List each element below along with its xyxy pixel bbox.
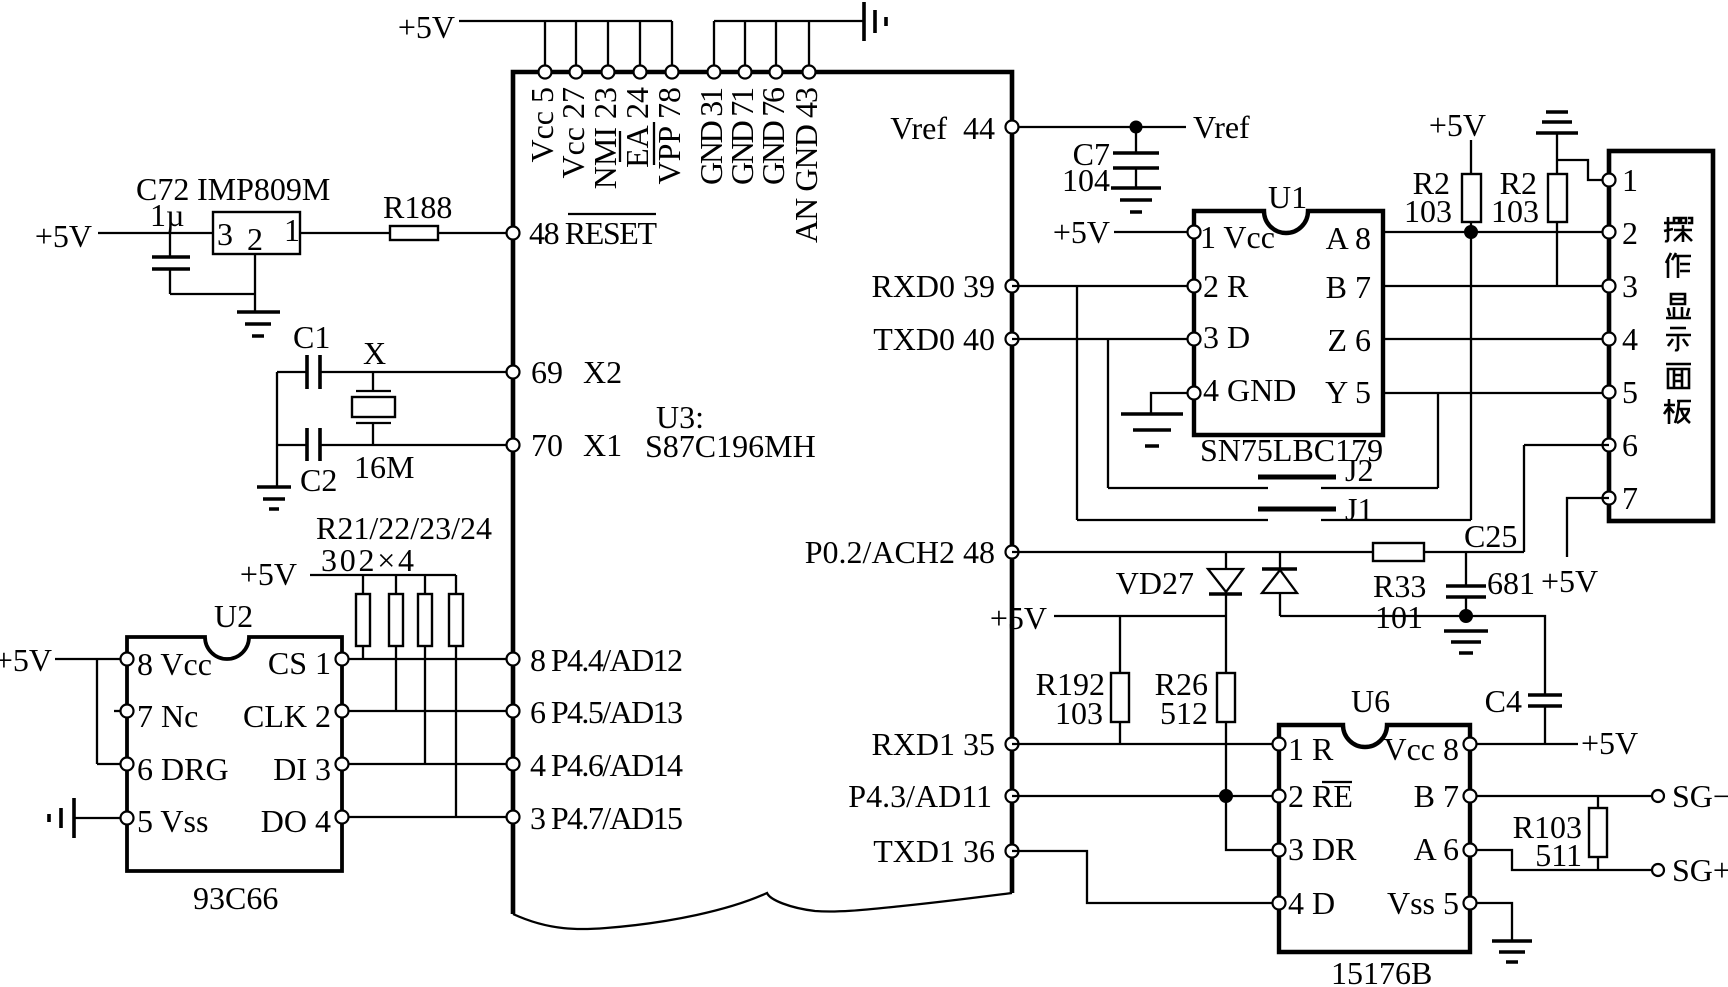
node C25 ground junction <box>1459 609 1473 623</box>
svg-text:C1: C1 <box>293 319 330 355</box>
pin AN GND 43 <box>788 66 824 244</box>
svg-text:+5V: +5V <box>35 218 92 254</box>
svg-text:GND 76: GND 76 <box>755 87 791 185</box>
pin 70 X1 <box>507 427 623 463</box>
wire branch to J2 left <box>1107 339 1109 488</box>
svg-text:TXD0 40: TXD0 40 <box>873 321 995 357</box>
pin GND 76 <box>755 66 791 186</box>
svg-text:4: 4 <box>1622 321 1638 357</box>
wire U1.B to panel pin3 <box>1383 285 1609 287</box>
pin U2.7 <box>121 705 134 718</box>
svg-text:C25: C25 <box>1464 518 1517 554</box>
node Vref junction <box>1130 121 1143 134</box>
pin U6.3 <box>1273 844 1286 857</box>
svg-text:R21/22/23/24: R21/22/23/24 <box>316 510 492 546</box>
EEPROM U2 93C66 body <box>127 598 342 916</box>
pin Vref circle <box>1006 121 1019 134</box>
pin U1.4 <box>1188 387 1201 400</box>
svg-text:3 P4.7/AD15: 3 P4.7/AD15 <box>530 800 683 836</box>
ground U2 Vss <box>49 798 74 838</box>
pin U6.1 <box>1273 738 1286 751</box>
wire U2 pin7 stub <box>114 710 121 712</box>
svg-text:J1: J1 <box>1345 491 1373 527</box>
pin U1.1 <box>1188 226 1201 239</box>
pin U6.8 <box>1464 738 1477 751</box>
wire U1.A to panel pin2 <box>1383 231 1609 233</box>
svg-text:AN GND 43: AN GND 43 <box>788 87 824 243</box>
svg-text:69: 69 <box>531 354 563 390</box>
svg-text:+5V: +5V <box>1429 107 1486 143</box>
panel pin6 <box>1603 439 1616 452</box>
pin U2.6 <box>121 758 134 771</box>
svg-text:A 8: A 8 <box>1326 220 1371 256</box>
svg-text:P4.3/AD11: P4.3/AD11 <box>848 778 992 814</box>
wire U6.B to SG- <box>1470 795 1652 797</box>
pin 6 P4.5/AD13 <box>507 694 684 730</box>
svg-text:681: 681 <box>1487 565 1535 601</box>
svg-text:1µ: 1µ <box>150 197 184 233</box>
wire CS to P4.4 <box>342 658 513 660</box>
svg-text:TXD1 36: TXD1 36 <box>873 833 995 869</box>
svg-text:8 P4.4/AD12: 8 P4.4/AD12 <box>530 642 683 678</box>
svg-text:VPP 78: VPP 78 <box>651 87 687 185</box>
svg-text:103: 103 <box>1491 193 1539 229</box>
pin U2.5 <box>121 812 134 825</box>
ground IMP809M <box>237 312 280 336</box>
pin 8 P4.4/AD12 <box>507 642 684 678</box>
MCU U3 S87C196MH body <box>513 72 1012 929</box>
wire U6 Vcc to +5V <box>1470 743 1578 745</box>
pin TXD1 36 <box>873 833 1018 869</box>
wire TXD1 to U6.4 <box>1012 851 1279 903</box>
svg-text:R188: R188 <box>383 189 452 225</box>
diode VD27a to +5V <box>1208 552 1243 616</box>
pin P4.3/AD11 <box>848 778 1018 814</box>
pin P0.2/ACH2 48 <box>805 534 1019 570</box>
svg-text:U1: U1 <box>1268 179 1307 215</box>
svg-text:6 P4.5/AD13: 6 P4.5/AD13 <box>530 694 683 730</box>
wire RXD0 to U1.R <box>1012 285 1194 287</box>
resistor R33 101 <box>1373 543 1426 635</box>
svg-text:1: 1 <box>284 212 300 248</box>
svg-text:C2: C2 <box>300 462 337 498</box>
svg-text:70: 70 <box>531 427 563 463</box>
pin U1.3 <box>1188 333 1201 346</box>
svg-text:DI 3: DI 3 <box>273 751 331 787</box>
wire CLK to P4.5 <box>342 710 513 712</box>
wire U1.4 to ground <box>1151 393 1194 414</box>
ground top-right <box>864 2 886 41</box>
wire R188 to RESET <box>438 232 513 234</box>
svg-text:48 RESET: 48 RESET <box>529 215 657 251</box>
pin 3 P4.7/AD15 <box>507 800 684 836</box>
svg-text:7 Nc: 7 Nc <box>137 698 198 734</box>
panel label char 操 <box>1664 217 1692 242</box>
wire C4 top <box>1466 616 1545 694</box>
resistor R103 511 <box>1513 796 1607 873</box>
wire +5V to IMP809M <box>98 232 213 234</box>
svg-text:4 GND: 4 GND <box>1203 372 1296 408</box>
svg-text:7: 7 <box>1622 480 1638 516</box>
wire DO to P4.7 <box>342 816 513 818</box>
svg-text:S87C196MH: S87C196MH <box>645 428 816 464</box>
svg-text:RXD0 39: RXD0 39 <box>871 268 995 304</box>
svg-text:93C66: 93C66 <box>193 880 278 916</box>
wire +5V rail top <box>459 21 672 72</box>
pin 48 RESET <box>507 214 658 251</box>
panel label char 显 <box>1666 294 1691 318</box>
wire U2 Vss to ground <box>75 817 121 819</box>
resistor R2 103 first <box>1404 140 1481 232</box>
wire +5V to U2 Vcc and DRG <box>55 659 127 764</box>
terminal SG+ <box>1652 852 1728 888</box>
pin U2 DI <box>336 758 349 771</box>
pin GND 31 <box>693 66 729 186</box>
svg-text:U2: U2 <box>214 598 253 634</box>
svg-text:Y 5: Y 5 <box>1325 374 1371 410</box>
svg-text:EA 24: EA 24 <box>619 87 655 168</box>
svg-text:J2: J2 <box>1345 452 1373 488</box>
svg-text:+5V: +5V <box>1581 725 1638 761</box>
svg-text:CS 1: CS 1 <box>268 645 331 681</box>
svg-text:1 R: 1 R <box>1288 731 1334 767</box>
wire U1.Z to panel pin4 <box>1383 338 1609 340</box>
pin U2 CLK <box>336 705 349 718</box>
wire R26 down to DR <box>1226 722 1279 850</box>
diode VD27b to GND <box>1262 552 1297 616</box>
pin U2.8 <box>121 653 134 666</box>
svg-text:511: 511 <box>1535 837 1582 873</box>
wire panel pin1 hook <box>1557 160 1609 180</box>
svg-text:RXD1 35: RXD1 35 <box>871 726 995 762</box>
terminal SG- <box>1652 778 1728 814</box>
svg-text:+5V: +5V <box>1053 214 1110 250</box>
resistor R192 103 <box>1036 616 1129 744</box>
pin GND 71 <box>724 66 760 186</box>
crystal X 16M <box>352 335 414 485</box>
wire TXD0 to U1.D <box>1012 338 1194 340</box>
svg-text:3 D: 3 D <box>1203 319 1250 355</box>
connector panel 操作显示面板 <box>1609 151 1713 521</box>
svg-text:CLK 2: CLK 2 <box>243 698 331 734</box>
svg-text:16M: 16M <box>354 449 414 485</box>
driver U6 15176B body <box>1279 683 1470 987</box>
ground U6 Vss <box>1492 941 1532 962</box>
panel pin1 <box>1603 174 1616 187</box>
svg-text:Vref 44: Vref 44 <box>890 110 995 146</box>
capacitor C72 1u <box>136 171 255 294</box>
svg-text:SG+: SG+ <box>1672 852 1728 888</box>
wire RXD1 to U6.1 <box>1012 743 1279 745</box>
supervisor U? IMP809M <box>197 171 330 257</box>
jumper J1 <box>1077 491 1471 527</box>
svg-text:B 7: B 7 <box>1414 778 1459 814</box>
pin U1.2 <box>1188 280 1201 293</box>
svg-text:SG−: SG− <box>1672 778 1728 814</box>
svg-text:2 RE: 2 RE <box>1288 778 1353 814</box>
panel pin5 <box>1603 386 1616 399</box>
svg-text:X1: X1 <box>583 427 622 463</box>
svg-text:B 7: B 7 <box>1326 269 1371 305</box>
svg-text:P0.2/ACH2 48: P0.2/ACH2 48 <box>805 534 995 570</box>
svg-text:U6: U6 <box>1351 683 1390 719</box>
wire IMP pin2 to ground <box>254 254 256 312</box>
svg-text:1: 1 <box>1622 162 1638 198</box>
svg-text:103: 103 <box>1404 193 1452 229</box>
svg-text:5 Vss: 5 Vss <box>137 803 208 839</box>
wire branch to J1 left <box>1076 286 1078 520</box>
svg-text:C4: C4 <box>1485 683 1522 719</box>
svg-text:2: 2 <box>1622 215 1638 251</box>
resistor network R21/22/23/24 302x4 <box>240 510 492 817</box>
resistor R188 <box>383 189 452 240</box>
wire R33 to pin6 vertical <box>1424 445 1609 552</box>
wire panel pin7 to +5V <box>1567 498 1609 557</box>
svg-text:X: X <box>363 335 386 371</box>
svg-text:A 6: A 6 <box>1414 831 1459 867</box>
wire U1.Y to panel pin5 <box>1383 392 1609 394</box>
svg-text:15176B: 15176B <box>1331 955 1432 987</box>
wire +5V to U1.1 <box>1114 231 1194 233</box>
pin Vcc 27 <box>555 66 591 179</box>
svg-text:103: 103 <box>1055 695 1103 731</box>
svg-text:DO 4: DO 4 <box>261 803 331 839</box>
svg-text:2 R: 2 R <box>1203 268 1249 304</box>
crystal circuit rail <box>276 372 278 487</box>
svg-text:5: 5 <box>1622 374 1638 410</box>
svg-text:4 P4.6/AD14: 4 P4.6/AD14 <box>530 747 683 783</box>
panel pin3 <box>1603 280 1616 293</box>
pin U6.2 <box>1273 790 1286 803</box>
svg-text:Z 6: Z 6 <box>1327 322 1371 358</box>
panel pin7 <box>1603 492 1616 505</box>
pin U6.6 <box>1464 844 1477 857</box>
capacitor C4 <box>1485 683 1562 744</box>
panel pin4 <box>1603 333 1616 346</box>
svg-text:2: 2 <box>247 221 263 257</box>
svg-text:Vcc 8: Vcc 8 <box>1383 731 1459 767</box>
pin Vref 44 <box>890 110 995 146</box>
pin Vcc 5 <box>524 66 560 163</box>
ground C7 <box>1111 188 1161 212</box>
wire +5V rail mid <box>1054 615 1226 617</box>
ground inverted above R2 second <box>1536 112 1578 133</box>
pin TXD0 40 <box>873 321 1018 357</box>
wire IMP pin1 to R188 <box>300 232 390 234</box>
svg-text:3: 3 <box>217 216 233 252</box>
svg-text:+5V: +5V <box>1541 563 1598 599</box>
svg-text:X2: X2 <box>583 354 622 390</box>
capacitor C7 104 <box>1062 127 1159 198</box>
panel label char 面 <box>1666 364 1691 388</box>
panel label char 示 <box>1666 328 1691 350</box>
wire U6 Vss to ground <box>1470 903 1512 940</box>
svg-text:Vcc 27: Vcc 27 <box>555 87 591 179</box>
svg-text:104: 104 <box>1062 162 1110 198</box>
svg-text:VD27: VD27 <box>1116 565 1194 601</box>
svg-text:6: 6 <box>1622 427 1638 463</box>
svg-text:6 DRG: 6 DRG <box>137 751 229 787</box>
jumper J2 <box>1108 452 1438 488</box>
wire Vref out <box>1012 126 1186 128</box>
svg-text:4 D: 4 D <box>1288 885 1335 921</box>
wire GND rail top <box>714 21 864 72</box>
node A8 junction <box>1464 225 1478 239</box>
ground crystal <box>257 487 291 509</box>
resistor R2 103 second <box>1491 133 1567 286</box>
wire Y5 branch to J2 <box>1437 393 1439 488</box>
svg-text:302×4: 302×4 <box>321 542 414 578</box>
pin RXD1 35 <box>871 726 1018 762</box>
svg-text:+5V: +5V <box>0 642 52 678</box>
wire P4.3 to U6.2 <box>1012 795 1279 797</box>
wire DI to P4.6 <box>342 763 513 765</box>
pin U6.7 <box>1464 790 1477 803</box>
wire J1 right vertical <box>1470 232 1472 520</box>
pin RXD0 39 <box>871 268 1018 304</box>
svg-text:+5V: +5V <box>398 9 455 45</box>
wire U6.A to SG+ <box>1470 850 1652 870</box>
ground U1 <box>1121 414 1183 446</box>
svg-text:3: 3 <box>1622 268 1638 304</box>
pin U2 DO <box>336 811 349 824</box>
svg-text:Vref: Vref <box>1193 109 1250 145</box>
svg-text:IMP809M: IMP809M <box>197 171 330 207</box>
panel pin2 <box>1603 226 1616 239</box>
capacitor C1 <box>277 319 513 389</box>
svg-text:1 Vcc: 1 Vcc <box>1200 219 1275 255</box>
svg-text:512: 512 <box>1160 695 1208 731</box>
svg-text:NMI 23: NMI 23 <box>587 87 623 189</box>
svg-text:+5V: +5V <box>990 600 1047 636</box>
node P4.3 junction <box>1219 789 1233 803</box>
pin EA 24 <box>619 66 655 168</box>
capacitor C25 681 <box>1446 518 1535 616</box>
pin 69 X2 <box>507 354 623 390</box>
svg-text:Vss 5: Vss 5 <box>1387 885 1459 921</box>
wire P0.2 net <box>1012 551 1373 553</box>
pin NMI 23 <box>587 66 623 190</box>
svg-text:3 DR: 3 DR <box>1288 831 1357 867</box>
pin VPP 78 <box>651 66 687 185</box>
svg-text:8 Vcc: 8 Vcc <box>137 646 212 682</box>
panel label char 板 <box>1664 399 1691 424</box>
panel label char 作 <box>1666 253 1691 278</box>
transceiver U1 SN75LBC179 body <box>1194 179 1383 468</box>
pin 4 P4.6/AD14 <box>507 747 684 783</box>
capacitor C2 <box>277 428 513 498</box>
svg-text:+5V: +5V <box>240 556 297 592</box>
pin U2 CS <box>336 653 349 666</box>
wire VD27b to ground node <box>1280 615 1466 617</box>
pin U6.4 <box>1273 897 1286 910</box>
ground C25 <box>1444 631 1488 653</box>
resistor R26 512 <box>1155 616 1235 731</box>
pin U6.5 <box>1464 897 1477 910</box>
